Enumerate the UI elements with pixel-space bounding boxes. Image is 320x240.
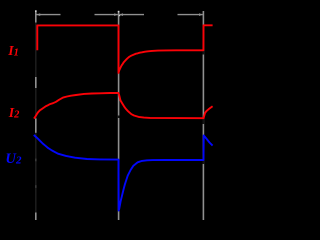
dimension line segment 2 [95,14,118,16]
curve I2 secondary trace [34,93,213,119]
marker t1 gray segment mid1 [35,77,37,88]
marker t1 dark vertical line [35,23,37,213]
dimension line segment 3 [119,14,144,16]
dimension arrowhead right at t3 [199,13,203,16]
svg-text:I1: I1 [7,43,19,58]
svg-text:I2: I2 [8,105,20,120]
marker t3 dark tick a [202,51,204,55]
marker t2 dark tick [118,116,120,119]
marker t1 gray segment top [35,11,37,23]
bright pixel at t2 dimension crossing [119,15,120,16]
marker t1 top bright dot [35,10,37,12]
curve U2 secondary voltage trace [34,135,213,211]
marker t2 gray vertical line [118,11,120,220]
marker t1 faint tick b [35,185,37,188]
dimension arrowhead right at t2 [114,13,118,16]
dimension arrowhead left at t1 [37,13,41,16]
marker t1 gray segment bottom [35,213,37,221]
marker t1 faint tick a [35,159,37,162]
svg-text:U2: U2 [5,151,22,167]
dimension arrowhead left at t2 [119,13,123,16]
marker t3 gray vertical line [202,11,204,220]
curve I1 primary trace [37,25,213,73]
marker t1 gray segment mid2 [35,118,37,132]
marker t2 top bright dot [118,11,120,13]
marker t3 dark tick c [202,119,204,124]
dimension line segment 1 [37,14,61,16]
marker t3 dark tick b [202,161,204,165]
dimension line segment 4 [178,14,203,16]
